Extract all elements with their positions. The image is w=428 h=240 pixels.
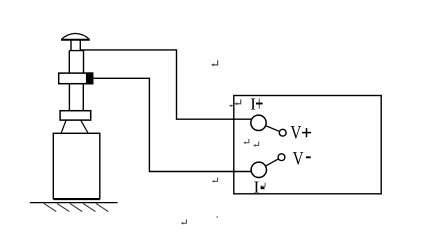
link I- terminal to V- terminal — [259, 157, 282, 170]
wire I+ from probe top to terminal — [80, 50, 252, 119]
cylinder body — [53, 133, 100, 198]
small left arrow mark at box corner — [231, 105, 233, 107]
funnel left side — [61, 120, 66, 133]
probe tube lower section — [68, 84, 70, 111]
cylinder bottom thick edge — [53, 198, 100, 200]
label I- minus sign — [261, 187, 265, 189]
label I+ plus sign — [258, 98, 260, 108]
probe upper stem — [70, 41, 72, 51]
terminal I- circle — [251, 162, 266, 177]
probe cap dome — [62, 33, 90, 39]
label V- minus sign — [306, 156, 311, 158]
terminal V- circle — [278, 154, 285, 161]
collar black block — [86, 72, 93, 84]
tiny dot mark — [216, 216, 218, 218]
ground hatch 3 — [70, 203, 82, 211]
ground hatch 1 — [44, 203, 56, 211]
paragraph mark inside box 2 — [253, 142, 259, 147]
label V+ plus sign — [306, 128, 308, 137]
probe tube upper section — [68, 51, 70, 74]
probe cap chord — [61, 39, 90, 41]
ground hatch 2 — [57, 203, 69, 211]
paragraph mark left of box — [212, 177, 218, 182]
terminal I+ circle — [251, 115, 266, 130]
paragraph mark bottom middle — [181, 219, 187, 224]
collar rectangle — [59, 73, 93, 84]
paragraph mark after I- — [260, 183, 265, 188]
paragraph mark at box corner — [234, 99, 240, 105]
ground line — [30, 202, 118, 204]
instrument box — [234, 96, 381, 194]
svg-text:I: I — [254, 177, 260, 196]
svg-text:I: I — [250, 94, 256, 113]
paragraph mark near top wire — [211, 60, 218, 66]
ground hatch 4 — [83, 203, 95, 211]
svg-text:V: V — [290, 122, 302, 143]
wire I- from collar block to terminal — [93, 78, 252, 171]
probe tube shoulder — [69, 50, 83, 52]
ground hatch 5 — [96, 203, 108, 211]
svg-text:V: V — [293, 148, 305, 169]
flange rectangle — [60, 111, 91, 120]
paragraph mark inside box 1 — [243, 139, 249, 144]
link I+ terminal to V+ terminal — [259, 123, 283, 133]
terminal V+ circle — [279, 129, 286, 136]
funnel right side — [81, 120, 88, 133]
